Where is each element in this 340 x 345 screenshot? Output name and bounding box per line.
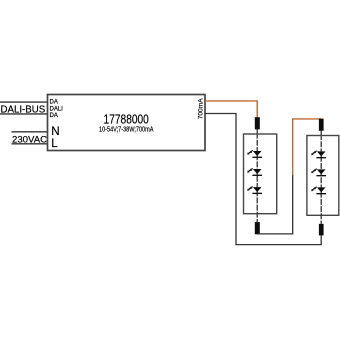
wire connector to module1 box (256, 129, 258, 134)
LED driver U1 box 17788000 (48, 95, 206, 151)
svg-text:L: L (51, 137, 58, 150)
wire junction to module2 top orange part (293, 119, 321, 175)
connector module2 top (319, 119, 324, 131)
wire mains N (12, 131, 48, 133)
wire mains L (12, 143, 48, 145)
wire LED+ orange driver to module1 top (205, 101, 257, 118)
svg-text:DA: DA (50, 100, 58, 106)
svg-text:10-54V;7-38W;700mA: 10-54V;7-38W;700mA (99, 126, 154, 134)
wire connector to module2 box (320, 131, 322, 136)
wire internal module2 dashed (320, 136, 322, 224)
svg-text:DALI-BUS: DALI-BUS (1, 104, 46, 115)
svg-text:700mA: 700mA (197, 98, 204, 119)
LED D6 (311, 187, 326, 195)
svg-text:DA: DA (50, 113, 58, 119)
LED module 2 box (307, 136, 339, 216)
svg-text:17788000: 17788000 (104, 112, 149, 126)
LED module 1 box (244, 134, 277, 214)
LED D2 (247, 168, 262, 176)
connector module1 top (255, 117, 260, 129)
svg-text:230VAC: 230VAC (12, 134, 47, 145)
connector module2 bottom (319, 224, 324, 236)
LED D5 (311, 169, 326, 177)
wire DALI bus DA top (0, 101, 48, 103)
wire internal module1 dashed (256, 135, 258, 223)
LED D4 (311, 151, 326, 159)
wire DALI bus DA bottom (0, 113, 48, 115)
svg-text:DALI: DALI (50, 106, 64, 112)
wire module1 bottom to junction dark part (257, 175, 293, 234)
LED D3 (247, 186, 262, 194)
LED D1 (247, 150, 262, 158)
connector module1 bottom (255, 222, 260, 234)
wire LED- return module2 to driver (205, 114, 321, 245)
